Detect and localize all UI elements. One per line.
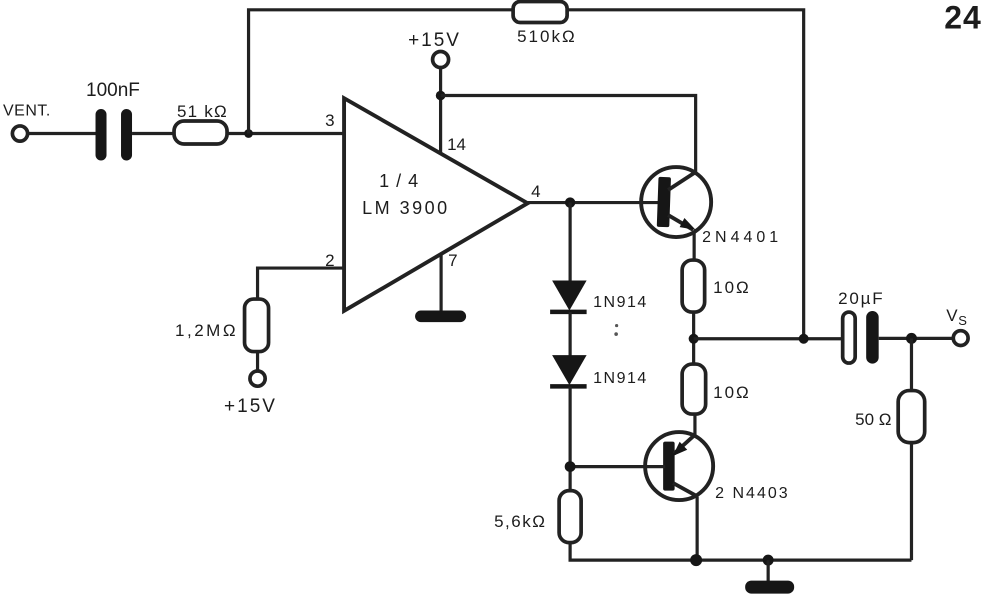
op-amp U1 triangle bbox=[344, 98, 528, 311]
node Vs junction bbox=[906, 333, 917, 344]
pin 2 label bbox=[325, 251, 334, 270]
wire ground stub bbox=[767, 560, 770, 581]
scan colon artifact bbox=[614, 324, 618, 336]
wire R2 to right vertical down to output node bbox=[567, 10, 804, 339]
label 1N914 lower bbox=[593, 370, 648, 387]
svg-text:14: 14 bbox=[447, 135, 466, 154]
svg-text:3: 3 bbox=[325, 111, 334, 130]
svg-text:V: V bbox=[946, 306, 958, 325]
wire +15V to pin 14 bbox=[439, 68, 442, 153]
resistor R5 10 ohm lower bbox=[682, 364, 706, 414]
wire R4 to node and to R5 bbox=[692, 312, 695, 364]
resistor R3 1.2M bbox=[245, 299, 269, 352]
label VENT. bbox=[3, 103, 51, 120]
node bottom ground junction bbox=[763, 555, 774, 566]
resistor R7 5.6k bbox=[559, 491, 581, 543]
wire output node to C2 bbox=[694, 337, 844, 340]
wire Q1 emitter down to R4 bbox=[693, 231, 696, 261]
label 100nF bbox=[86, 80, 140, 101]
pin 7 label bbox=[448, 251, 457, 270]
label 1,2MOhm bbox=[175, 321, 238, 340]
svg-text:51 kΩ: 51 kΩ bbox=[177, 102, 228, 121]
label 2N4401 bbox=[702, 229, 782, 246]
svg-text:4: 4 bbox=[531, 182, 540, 201]
label 5,6k ohm bbox=[494, 512, 546, 531]
svg-text:1N914: 1N914 bbox=[593, 294, 648, 311]
transistor Q2 2N4403 bbox=[645, 432, 713, 500]
wire input terminal to C1 bbox=[28, 132, 96, 135]
label +15V top bbox=[408, 30, 461, 51]
node VENT input terminal bbox=[12, 126, 27, 141]
label 10 ohm upper bbox=[713, 278, 751, 297]
node A input junction bbox=[244, 129, 253, 138]
pin 14 label bbox=[447, 135, 466, 154]
wire Vs node to R6 bbox=[910, 338, 913, 391]
svg-text:1,2MΩ: 1,2MΩ bbox=[175, 321, 238, 340]
node output mid bbox=[689, 334, 699, 344]
wire Q2 base from node B bbox=[570, 465, 665, 468]
label 10 ohm lower bbox=[713, 383, 751, 402]
svg-text:VENT.: VENT. bbox=[3, 103, 51, 120]
svg-text:2 N4403: 2 N4403 bbox=[715, 485, 790, 502]
resistor R1 51k bbox=[174, 121, 227, 144]
wire pin 2 to R3 bbox=[258, 268, 344, 299]
svg-text:10Ω: 10Ω bbox=[713, 383, 751, 402]
label +15V bottom bbox=[224, 396, 277, 417]
label 50 ohm bbox=[855, 410, 891, 429]
wire R6 to bottom rail bbox=[910, 443, 913, 561]
wire R7 to bottom rail bbox=[570, 543, 911, 561]
wire pin4 node down to D1 bbox=[569, 203, 572, 282]
wire C1 to R1 bbox=[132, 132, 174, 135]
wire feedback left vertical and top run to R2 bbox=[249, 10, 514, 134]
svg-text:24: 24 bbox=[944, 0, 982, 36]
wire Q2 collector to bottom rail bbox=[696, 497, 699, 561]
svg-text:7: 7 bbox=[448, 251, 457, 270]
svg-text:LM 3900: LM 3900 bbox=[362, 198, 450, 218]
wire D2 down to node B and R7 bbox=[569, 387, 572, 491]
node bottom collector junction bbox=[690, 554, 702, 566]
svg-text:100nF: 100nF bbox=[86, 80, 140, 101]
page number 24 bbox=[944, 0, 982, 36]
label 510kOhm bbox=[517, 27, 577, 46]
wire R1 to op-amp pin 3 bbox=[227, 132, 344, 135]
wire +15V node to Q1 collector bbox=[441, 96, 696, 173]
svg-text:S: S bbox=[958, 313, 967, 328]
pin 4 label bbox=[531, 182, 540, 201]
svg-text:510kΩ: 510kΩ bbox=[517, 27, 577, 46]
svg-text:2N4401: 2N4401 bbox=[702, 229, 782, 246]
label 1/4 bbox=[379, 171, 425, 191]
wire R5 to Q2 emitter bbox=[693, 414, 696, 435]
transistor Q1 2N4401 bbox=[641, 167, 711, 237]
terminal +15V bottom bbox=[250, 371, 265, 386]
wire D1 to D2 bbox=[569, 312, 572, 356]
label 2N4403 bbox=[715, 485, 790, 502]
node feedback junction bbox=[799, 334, 809, 344]
resistor R6 50 ohm bbox=[898, 391, 925, 443]
label 20uF bbox=[838, 289, 884, 308]
wire pin 7 to ground bbox=[439, 255, 442, 312]
label 1N914 upper bbox=[593, 294, 648, 311]
resistor R2 510k bbox=[513, 2, 567, 23]
node B base junction bbox=[565, 461, 576, 472]
svg-text:50 Ω: 50 Ω bbox=[855, 410, 891, 429]
diode D2 1N914 bbox=[550, 355, 587, 386]
svg-text:1/4: 1/4 bbox=[379, 171, 425, 191]
terminal +15V top bbox=[433, 52, 449, 68]
wire C2 to Vs terminal bbox=[879, 337, 954, 340]
diode D1 1N914 bbox=[550, 281, 587, 312]
ground op-amp bbox=[415, 311, 466, 323]
svg-text:5,6kΩ: 5,6kΩ bbox=[494, 512, 546, 531]
terminal Vs bbox=[953, 331, 968, 346]
wire pin 4 output to Q1 base bbox=[528, 201, 661, 204]
svg-text:+15V: +15V bbox=[224, 396, 277, 417]
svg-text:20µF: 20µF bbox=[838, 289, 884, 308]
resistor R4 10 ohm upper bbox=[682, 260, 705, 312]
node +15V junction bbox=[436, 91, 446, 101]
label LM 3900 bbox=[362, 198, 450, 218]
svg-text:10Ω: 10Ω bbox=[713, 278, 751, 297]
pin 3 label bbox=[325, 111, 334, 130]
svg-text:1N914: 1N914 bbox=[593, 370, 648, 387]
capacitor C1 100nF bbox=[96, 109, 133, 161]
ground bottom bbox=[745, 581, 794, 594]
wire R3 to terminal bbox=[256, 352, 259, 372]
svg-text:+15V: +15V bbox=[408, 30, 461, 51]
node pin4 junction bbox=[565, 197, 575, 207]
capacitor C2 20uF bbox=[843, 311, 879, 364]
label 51 kOhm bbox=[177, 102, 228, 121]
label Vs bbox=[946, 306, 967, 328]
